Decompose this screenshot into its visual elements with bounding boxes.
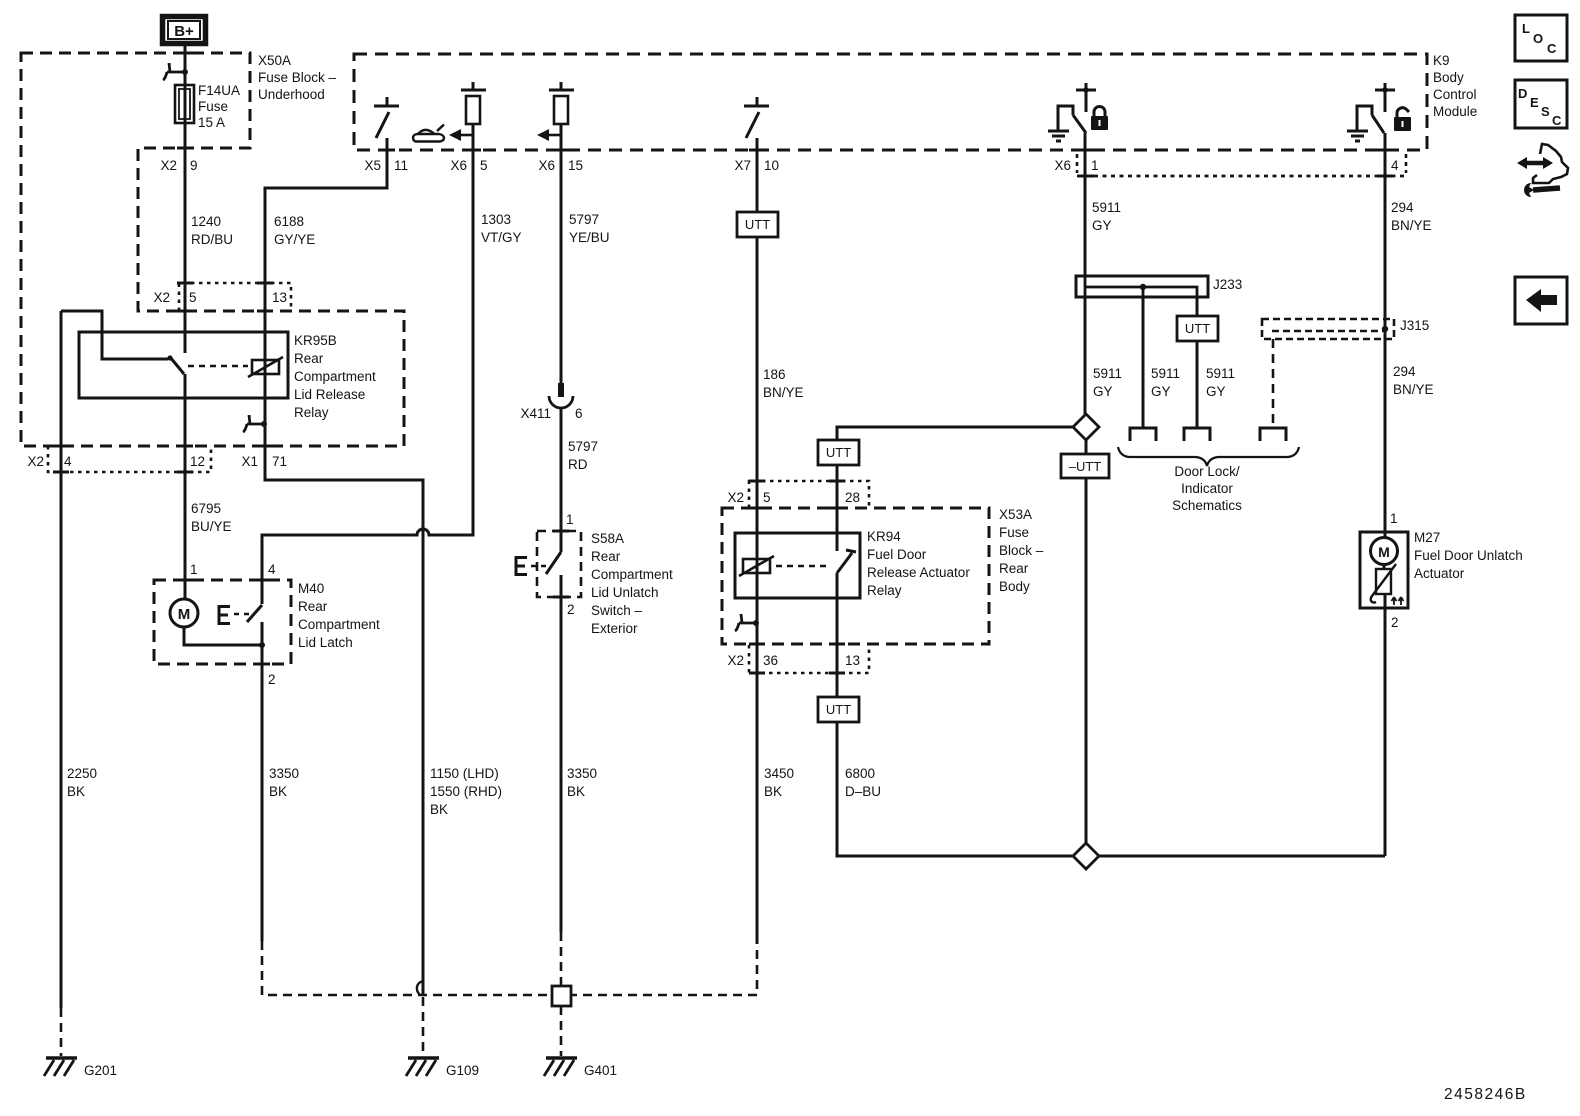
UTT box on wire to pin 28 <box>818 440 859 465</box>
svg-text:28: 28 <box>845 490 860 505</box>
svg-text:36: 36 <box>763 653 778 668</box>
trunk-release arrow (X6-5) <box>449 129 473 141</box>
svg-text:E: E <box>1530 95 1539 110</box>
svg-text:UTT: UTT <box>826 445 851 460</box>
svg-text:294BN/YE: 294BN/YE <box>1391 200 1432 233</box>
svg-text:X6: X6 <box>450 158 467 173</box>
svg-text:X53AFuseBlock –RearBody: X53AFuseBlock –RearBody <box>999 507 1044 594</box>
svg-text:2: 2 <box>1391 615 1399 630</box>
svg-text:UTT: UTT <box>826 702 851 717</box>
svg-text:X6: X6 <box>538 158 555 173</box>
ground splice square on bus <box>552 986 571 1006</box>
wire lower splice to M27 branch <box>1099 855 1385 858</box>
svg-text:2250BK: 2250BK <box>67 766 97 799</box>
K9 body control module dashed box <box>354 54 1427 150</box>
svg-text:9: 9 <box>190 158 198 173</box>
splice curl on 1150 wire at bus <box>417 981 423 995</box>
svg-text:X2: X2 <box>160 158 177 173</box>
M40 motor symbol <box>170 599 198 627</box>
wire 1303 run: X6-5 down, left with hop, down to M40 pin 4 <box>262 124 473 604</box>
splice hook below KR94 coil <box>735 614 759 631</box>
wire X6-1 down to J233 <box>1084 133 1087 414</box>
half-connector fork 1 <box>1130 428 1156 441</box>
wire 5797 from X6-15 to connector X411 <box>560 124 563 385</box>
svg-text:1: 1 <box>566 512 574 527</box>
svg-text:X1: X1 <box>241 454 258 469</box>
svg-text:5797YE/BU: 5797YE/BU <box>569 212 610 245</box>
svg-text:X6: X6 <box>1054 158 1071 173</box>
svg-text:L: L <box>1522 21 1530 36</box>
relay KR94 coil <box>739 556 774 576</box>
S58A switch arm <box>546 552 561 574</box>
dashed drop to G201 <box>60 1008 63 1056</box>
connector X6 pin 1 labels with dotted marks <box>1054 154 1098 173</box>
svg-text:KR95BRearCompartmentLid Releas: KR95BRearCompartmentLid ReleaseRelay <box>294 333 376 420</box>
svg-text:X5: X5 <box>364 158 381 173</box>
svg-text:1: 1 <box>1390 511 1398 526</box>
svg-text:5: 5 <box>763 490 771 505</box>
vehicle repair icon <box>1517 144 1568 197</box>
connector X2 pins 36 and 13 (dotted box, X53A) <box>727 645 869 673</box>
svg-text:F14UAFuse15 A: F14UAFuse15 A <box>198 83 240 130</box>
BCM door-lock driver X6-1 <box>1058 83 1096 133</box>
half-connector fork 3 <box>1260 428 1286 441</box>
svg-text:S: S <box>1541 104 1550 119</box>
BCM internal ground (pin 4 driver) <box>1347 131 1368 141</box>
connector X2 pins 5 and 13 (dotted box) <box>153 283 291 311</box>
svg-text:4: 4 <box>1391 158 1399 173</box>
-UTT box <box>1061 454 1109 478</box>
dashed drops to G401 <box>560 932 563 1056</box>
svg-text:O: O <box>1533 31 1543 46</box>
connector X2 pin 9 labels <box>160 148 197 173</box>
svg-text:5911GY: 5911GY <box>1151 366 1180 399</box>
wire diamond to -UTT and down to lower splice <box>1085 440 1088 843</box>
wire 5911 branch to fork 1 <box>1142 297 1145 428</box>
svg-text:5: 5 <box>480 158 488 173</box>
svg-text:J315: J315 <box>1400 318 1429 333</box>
svg-text:1: 1 <box>1091 158 1099 173</box>
ground bus dashed (rear) <box>262 941 757 995</box>
M27 thermal element <box>1371 564 1404 605</box>
splice pack J233 <box>1076 276 1208 297</box>
svg-text:1150 (LHD)1550 (RHD)BK: 1150 (LHD)1550 (RHD)BK <box>430 766 502 817</box>
svg-text:1240RD/BU: 1240RD/BU <box>191 214 233 247</box>
motor M40 dashed box <box>154 580 291 664</box>
svg-text:D: D <box>1518 86 1527 101</box>
svg-text:10: 10 <box>764 158 779 173</box>
svg-text:5797RD: 5797RD <box>568 439 598 472</box>
svg-text:4: 4 <box>64 454 72 469</box>
svg-text:13: 13 <box>272 290 287 305</box>
svg-text:Door Lock/IndicatorSchematics: Door Lock/IndicatorSchematics <box>1172 464 1242 513</box>
svg-text:KR94Fuel DoorRelease ActuatorR: KR94Fuel DoorRelease ActuatorRelay <box>867 529 970 598</box>
svg-text:3450BK: 3450BK <box>764 766 794 799</box>
svg-text:2458246B: 2458246B <box>1444 1086 1527 1103</box>
wire X411 to S58A switch contact <box>560 408 563 552</box>
wire relay common from pin 4 (L path) <box>61 311 168 359</box>
junction J315 dashed box <box>1262 319 1394 339</box>
fuse F14UA 15A <box>175 85 194 123</box>
svg-text:3350BK: 3350BK <box>567 766 597 799</box>
M27 motor symbol <box>1371 538 1398 565</box>
signal arrow (X6-15) <box>537 129 561 141</box>
wire lower contact to pin 12 and M40 pin 1 <box>184 374 187 599</box>
wire 186 BN/YE from X7-10 down through KR94 coil to ground bus <box>756 138 759 944</box>
svg-text:186BN/YE: 186BN/YE <box>763 367 804 400</box>
svg-text:15: 15 <box>568 158 583 173</box>
svg-text:1303VT/GY: 1303VT/GY <box>481 212 522 245</box>
S58A actuator E dashes <box>516 556 550 576</box>
svg-text:UTT: UTT <box>1185 321 1210 336</box>
LOC navigation box <box>1515 15 1567 61</box>
svg-text:X2: X2 <box>27 454 44 469</box>
svg-text:J233: J233 <box>1213 277 1242 292</box>
back arrow box <box>1515 277 1567 324</box>
relay KR94 switch arm <box>837 550 856 573</box>
UTT box on wire 186 <box>737 212 778 237</box>
svg-text:1: 1 <box>190 562 198 577</box>
wire M40 pin 2 to ground bus <box>261 622 264 941</box>
svg-text:X50AFuse Block –Underhood: X50AFuse Block –Underhood <box>258 53 337 102</box>
svg-text:X411: X411 <box>520 406 551 421</box>
dashed drop to G109 <box>422 997 425 1056</box>
wire 6800 from KR94 pin 13 to bottom splice <box>837 573 1073 856</box>
in-line connector X411 <box>549 383 573 408</box>
splice hook above X1 pin 71 <box>243 415 267 432</box>
svg-text:11: 11 <box>394 158 408 173</box>
wire M27 pin 2 down to splice <box>1384 594 1387 856</box>
wire from splice diamond to KR94 pin 28 <box>837 427 1073 551</box>
svg-text:6795BU/YE: 6795BU/YE <box>191 501 232 534</box>
wire 3450 dashed tail <box>756 944 759 960</box>
svg-text:6: 6 <box>575 406 583 421</box>
wire 5911 branch through UTT to fork 2 <box>1196 297 1199 428</box>
connector X5 pin 11 labels <box>364 158 408 173</box>
UTT box on wire 6800 <box>818 697 859 722</box>
wire B+ down through fuse to relay contact <box>184 45 187 353</box>
svg-text:5911GY: 5911GY <box>1206 366 1235 399</box>
car with open trunk icon <box>413 125 444 142</box>
unlocked padlock icon <box>1394 108 1411 131</box>
ground wire 2250 from relay pin 4 <box>60 311 63 1008</box>
svg-text:3350BK: 3350BK <box>269 766 299 799</box>
DESC navigation box <box>1515 80 1567 128</box>
X53A fuse block dashed box <box>722 508 989 644</box>
X50A fuse block dashed outline (includes KR95B relay cavity) <box>21 53 404 446</box>
connector X6 pin 5 labels <box>450 158 487 173</box>
svg-text:–UTT: –UTT <box>1069 459 1102 474</box>
BCM output X6-15 <box>549 82 574 124</box>
splice diamond S (upper) <box>1073 414 1099 440</box>
connector X2 pins 5 and 28 (dotted box, X53A) <box>727 481 869 508</box>
switch S58A dashed box <box>537 531 581 597</box>
relay KR94 actuation dashes <box>776 565 830 568</box>
svg-text:M40RearCompartmentLid Latch: M40RearCompartmentLid Latch <box>298 581 380 650</box>
pin tick marks at connector crossings <box>53 53 1393 673</box>
BCM switch X7 output <box>744 97 769 138</box>
svg-text:4: 4 <box>268 562 276 577</box>
svg-text:X2: X2 <box>153 290 170 305</box>
svg-text:UTT: UTT <box>745 217 770 232</box>
splice diamond (lower) <box>1073 843 1099 869</box>
svg-text:C: C <box>1547 41 1557 56</box>
locked padlock icon <box>1091 107 1108 131</box>
ground G109 <box>406 1058 439 1076</box>
svg-text:G201: G201 <box>84 1063 117 1078</box>
svg-text:2: 2 <box>268 672 276 687</box>
svg-text:5911GY: 5911GY <box>1093 366 1122 399</box>
svg-text:6188GY/YE: 6188GY/YE <box>274 214 315 247</box>
svg-text:2: 2 <box>567 602 575 617</box>
svg-text:G401: G401 <box>584 1063 617 1078</box>
battery feed B+ <box>163 17 206 44</box>
M40 motor bottom wire to pin 2 <box>184 627 265 648</box>
svg-text:M: M <box>178 606 191 623</box>
svg-text:M27Fuel Door UnlatchActuator: M27Fuel Door UnlatchActuator <box>1414 530 1523 581</box>
svg-text:X2: X2 <box>727 653 744 668</box>
wire 294 from BCM pin 4 through J315 to M27 <box>1384 133 1387 538</box>
half-connector fork 2 <box>1184 428 1210 441</box>
connector X411 pin 6 labels <box>520 406 582 421</box>
svg-text:S58ARearCompartmentLid Unlatch: S58ARearCompartmentLid UnlatchSwitch –Ex… <box>591 531 673 636</box>
connector X7 pin 10 labels <box>734 158 779 173</box>
svg-text:M: M <box>1378 544 1390 560</box>
ground G401 <box>544 1058 577 1076</box>
relay KR95B solid box <box>79 332 288 398</box>
svg-text:6800D–BU: 6800D–BU <box>845 766 881 799</box>
dashed branch from J315 to fork 3 <box>1272 339 1275 428</box>
connector X1 pin 71 labels <box>241 454 287 469</box>
BCM internal ground (X6-1) <box>1048 131 1069 141</box>
relay KR95B switch arm <box>167 355 184 374</box>
connector X6 pin 15 labels <box>538 158 583 173</box>
wire S58A pin 2 to ground bus <box>560 575 563 932</box>
relay KR94 solid box <box>735 533 860 598</box>
BCM fuel-door driver (pin 4) <box>1357 83 1395 133</box>
ground G201 <box>44 1058 77 1076</box>
svg-text:X2: X2 <box>727 490 744 505</box>
relay KR95B actuation dashes <box>188 365 248 368</box>
svg-text:71: 71 <box>272 454 287 469</box>
brace for door lock schematics <box>1118 447 1299 466</box>
relay KR95B coil <box>248 357 283 377</box>
actuator M27 box <box>1360 532 1408 608</box>
svg-text:C: C <box>1552 113 1562 128</box>
svg-text:294BN/YE: 294BN/YE <box>1393 364 1434 397</box>
svg-text:G109: G109 <box>446 1063 479 1078</box>
svg-text:5911GY: 5911GY <box>1092 200 1121 233</box>
BCM switch X5 output <box>374 97 399 138</box>
svg-text:K9BodyControlModule: K9BodyControlModule <box>1433 53 1477 119</box>
UTT box on 5911 branch <box>1177 316 1218 341</box>
svg-text:5: 5 <box>189 290 197 305</box>
svg-text:X7: X7 <box>734 158 751 173</box>
BCM connector dotted line (pins 1 to 4) <box>1077 154 1407 176</box>
M40 switch arm <box>247 605 262 622</box>
splice hook at fuse feed <box>163 63 188 80</box>
connector X2 pins 4 and 12 (dotted box) <box>27 446 211 472</box>
BCM output X6-5 (hood release driver) <box>461 82 486 124</box>
wire 6188 / X1-71 run: X5 switch down, over, through coil, out to 1150 drop <box>265 138 423 996</box>
M40 switch actuator E dashes <box>219 605 250 625</box>
svg-text:13: 13 <box>845 653 860 668</box>
svg-text:12: 12 <box>190 454 205 469</box>
svg-text:B+: B+ <box>174 23 194 40</box>
